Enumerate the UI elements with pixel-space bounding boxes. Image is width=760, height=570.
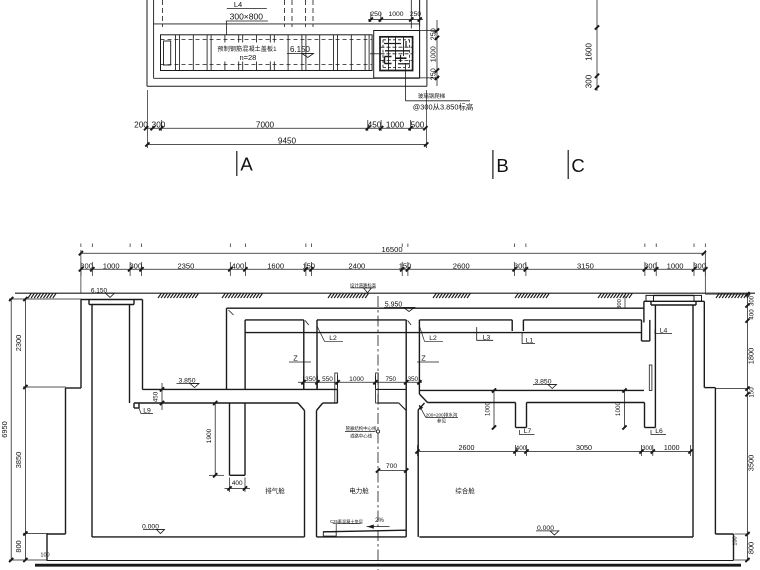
- svg-text:道路中心线: 道路中心线: [350, 432, 373, 439]
- svg-text:200: 200: [134, 120, 148, 129]
- svg-text:2600: 2600: [453, 262, 470, 271]
- svg-text:300×800: 300×800: [230, 12, 264, 22]
- svg-text:预制钢筋混凝土盖板1: 预制钢筋混凝土盖板1: [217, 45, 277, 53]
- svg-text:250: 250: [410, 11, 422, 18]
- svg-text:3150: 3150: [577, 262, 594, 271]
- svg-text:400: 400: [516, 445, 527, 452]
- svg-text:1000: 1000: [485, 401, 492, 416]
- svg-text:L2: L2: [429, 335, 437, 342]
- svg-text:500: 500: [411, 120, 425, 129]
- svg-text:@300从3.850标高: @300从3.850标高: [413, 103, 474, 112]
- svg-text:1000: 1000: [103, 262, 120, 271]
- svg-text:L3: L3: [483, 334, 491, 341]
- svg-text:3850: 3850: [14, 452, 23, 468]
- svg-text:排气舱: 排气舱: [265, 486, 285, 495]
- svg-text:700: 700: [386, 463, 398, 470]
- svg-text:2600: 2600: [459, 443, 475, 452]
- svg-text:3500: 3500: [747, 455, 756, 471]
- svg-text:1000: 1000: [664, 445, 680, 452]
- svg-text:150: 150: [302, 262, 315, 271]
- svg-text:100: 100: [733, 536, 739, 545]
- svg-text:1000: 1000: [667, 262, 684, 271]
- svg-text:9450: 9450: [278, 137, 297, 146]
- svg-text:250: 250: [429, 68, 438, 80]
- svg-text:1000: 1000: [349, 376, 364, 383]
- svg-text:A: A: [240, 154, 253, 175]
- svg-text:750: 750: [385, 376, 396, 383]
- svg-text:6.150: 6.150: [91, 287, 108, 294]
- svg-text:300: 300: [693, 262, 706, 271]
- svg-text:2400: 2400: [348, 262, 365, 271]
- svg-text:2300: 2300: [14, 335, 23, 351]
- svg-text:Z: Z: [421, 354, 426, 363]
- svg-text:300: 300: [585, 74, 594, 88]
- svg-text:300: 300: [80, 262, 93, 271]
- svg-text:电力舱: 电力舱: [349, 486, 369, 495]
- svg-text:300: 300: [750, 295, 756, 306]
- svg-text:参见: 参见: [437, 418, 447, 425]
- svg-text:n=28: n=28: [239, 53, 256, 62]
- svg-text:B: B: [496, 155, 508, 176]
- svg-text:管廊结构中心线: 管廊结构中心线: [346, 425, 377, 432]
- svg-text:400: 400: [749, 309, 756, 320]
- svg-text:1000: 1000: [429, 46, 438, 62]
- svg-text:800: 800: [747, 542, 756, 554]
- svg-text:1600: 1600: [267, 262, 284, 271]
- svg-text:C: C: [571, 155, 584, 176]
- svg-text:1800: 1800: [747, 348, 756, 364]
- svg-text:L4: L4: [234, 0, 242, 9]
- svg-text:综合舱: 综合舱: [455, 486, 475, 495]
- svg-text:300: 300: [644, 262, 657, 271]
- svg-text:2350: 2350: [177, 262, 194, 271]
- svg-text:3050: 3050: [576, 443, 592, 452]
- svg-text:550: 550: [322, 376, 333, 383]
- svg-text:400: 400: [232, 262, 245, 271]
- svg-text:L6: L6: [655, 428, 663, 435]
- svg-text:450: 450: [153, 391, 160, 402]
- svg-text:Z: Z: [293, 354, 298, 363]
- svg-text:300: 300: [617, 299, 623, 309]
- svg-text:800: 800: [14, 540, 23, 552]
- svg-text:6.150: 6.150: [290, 45, 311, 54]
- svg-text:250: 250: [370, 11, 382, 18]
- svg-text:350: 350: [305, 376, 316, 383]
- svg-text:100: 100: [40, 553, 49, 559]
- svg-text:1000: 1000: [386, 120, 405, 129]
- svg-text:150: 150: [749, 387, 756, 398]
- svg-text:2%: 2%: [375, 518, 384, 524]
- svg-text:300: 300: [642, 446, 653, 452]
- svg-text:L7: L7: [524, 428, 532, 435]
- svg-text:1600: 1600: [585, 43, 594, 61]
- svg-text:1000: 1000: [388, 11, 403, 18]
- svg-text:450: 450: [368, 120, 382, 129]
- svg-text:1900: 1900: [206, 428, 213, 443]
- svg-text:1000: 1000: [615, 401, 622, 416]
- svg-text:6950: 6950: [0, 421, 9, 437]
- svg-text:L9: L9: [143, 408, 151, 415]
- svg-text:300: 300: [129, 262, 142, 271]
- svg-text:16500: 16500: [381, 245, 402, 254]
- svg-text:400: 400: [232, 480, 243, 487]
- svg-text:300: 300: [514, 262, 527, 271]
- svg-text:150: 150: [399, 262, 412, 271]
- svg-text:L2: L2: [329, 335, 337, 342]
- svg-text:玻璃钢爬梯: 玻璃钢爬梯: [418, 92, 446, 100]
- svg-text:250: 250: [429, 28, 438, 40]
- svg-text:7000: 7000: [256, 120, 275, 129]
- svg-text:350: 350: [407, 376, 418, 383]
- svg-text:L1: L1: [526, 338, 534, 345]
- svg-text:300: 300: [152, 120, 166, 129]
- svg-text:L4: L4: [660, 327, 668, 334]
